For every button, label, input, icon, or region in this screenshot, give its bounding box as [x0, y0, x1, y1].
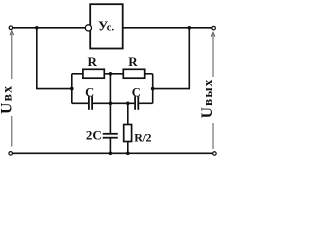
input terminal top-left — [9, 26, 13, 30]
svg-text:Uвых: Uвых — [199, 79, 216, 119]
wire C row left — [72, 102, 88, 104]
wire output right drop — [153, 28, 190, 89]
node output junction — [188, 26, 192, 30]
svg-text:C: C — [85, 85, 94, 99]
wire left section edge — [71, 74, 73, 104]
node amplifier input circle — [85, 25, 91, 31]
wire right section edge — [152, 74, 154, 104]
wire top input rail — [13, 27, 86, 29]
input terminal bottom-left — [9, 152, 13, 156]
arrow input voltage — [10, 31, 14, 147]
svg-text:R: R — [128, 54, 138, 69]
wire middle vertical — [109, 74, 111, 133]
svg-text:R: R — [88, 54, 98, 69]
wire left drop to network — [37, 28, 72, 89]
node right network node — [151, 87, 155, 91]
wire amplifier output — [123, 27, 212, 29]
wire R/2 tap vertical — [127, 103, 129, 124]
svg-text:C: C — [132, 85, 141, 99]
output terminal bottom-right — [213, 152, 217, 156]
wire C row middle — [93, 102, 134, 104]
node R/2 tap junction — [126, 102, 130, 106]
arrow output voltage — [211, 32, 215, 149]
output terminal top-right — [212, 26, 216, 30]
wire bottom rail — [13, 152, 213, 154]
op-amp U1 amplifier box — [90, 4, 123, 48]
node left network node — [70, 87, 74, 91]
wire R/2 to rail — [127, 142, 129, 154]
node R/2 rail junction — [126, 152, 130, 156]
resistor R1 — [83, 54, 104, 78]
node input junction — [35, 26, 39, 30]
capacitor C2 — [132, 85, 141, 109]
resistor R2 — [123, 54, 144, 78]
wire R row left — [72, 73, 82, 75]
wire C row right — [139, 102, 153, 104]
capacitor 2C — [86, 127, 118, 142]
svg-text:Ус.: Ус. — [98, 20, 114, 35]
capacitor C1 — [85, 85, 94, 109]
svg-text:Uвх: Uвх — [0, 85, 16, 114]
node middle C row junction — [109, 102, 113, 106]
resistor R/2 — [124, 125, 152, 145]
wire 2C to rail — [109, 138, 111, 153]
wire R row middle — [104, 73, 123, 75]
wire R row right — [145, 73, 153, 75]
node 2C rail junction — [109, 152, 113, 156]
node middle top junction — [109, 72, 113, 76]
svg-text:R/2: R/2 — [134, 131, 151, 145]
svg-text:2C: 2C — [86, 127, 102, 142]
